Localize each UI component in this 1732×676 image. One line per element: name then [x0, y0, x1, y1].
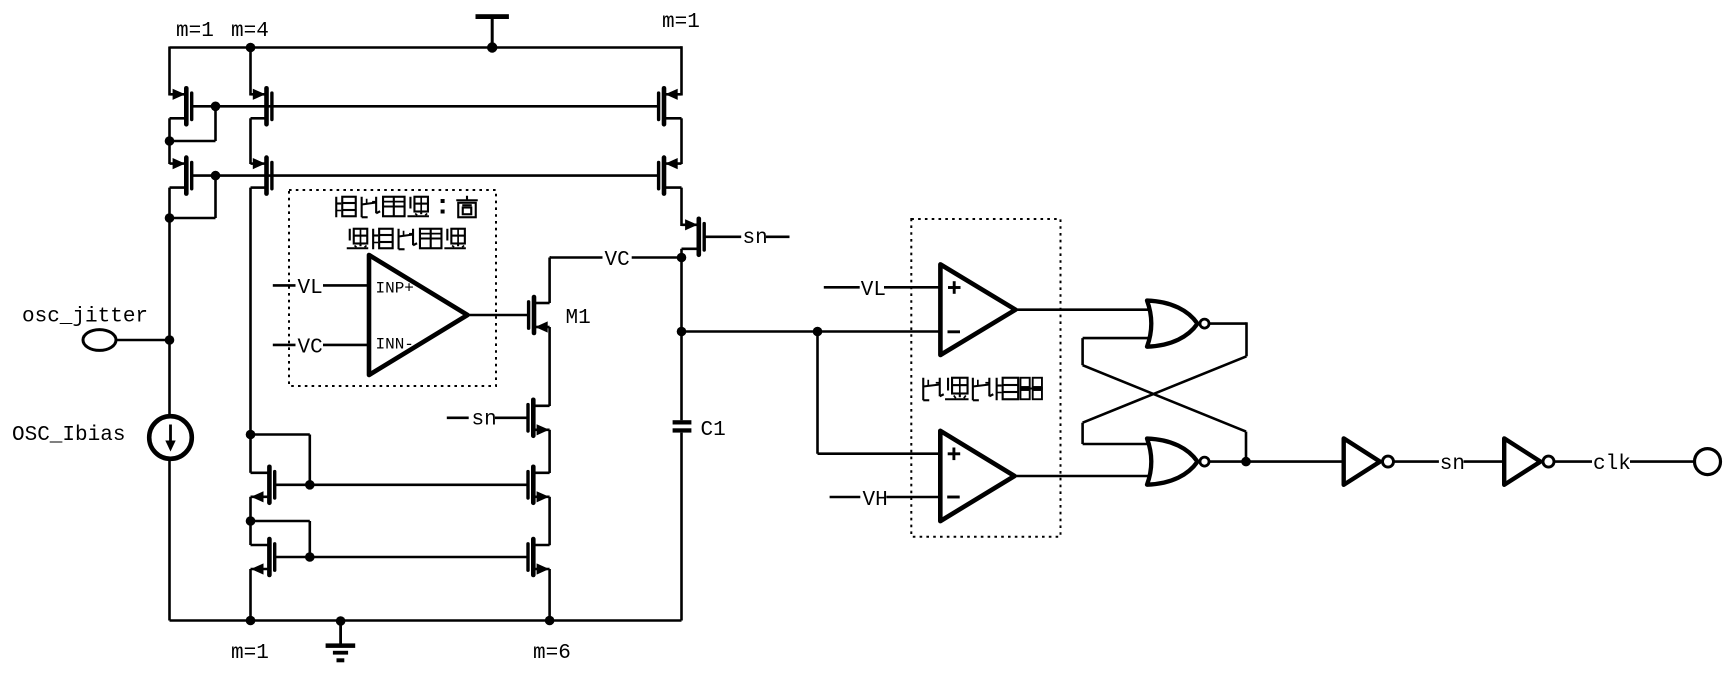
wire: C1 to ground rail [680, 433, 683, 621]
VDD supply symbol [476, 14, 509, 52]
wire: A1 output [1016, 308, 1152, 311]
wire: branch to lower comparator plus input [818, 452, 941, 455]
wire: VC column down to C1 [680, 332, 683, 421]
node: col1 mid [165, 136, 175, 146]
inverter I2 [1504, 438, 1554, 484]
label VC (node) [603, 249, 632, 269]
wire: osc_jitter lead [116, 339, 168, 342]
wire: top VDD rail [170, 46, 682, 49]
node: left mirror top [246, 430, 256, 440]
op-amp U1 (clamp) [369, 255, 468, 375]
svg-text:OSC_Ibias: OSC_Ibias [12, 424, 125, 447]
wire: VL lead [884, 286, 940, 289]
current source OSC_Ibias [149, 416, 192, 459]
terminal clk output [1695, 449, 1721, 475]
wire: VH stub [830, 496, 861, 499]
svg-text:VC: VC [605, 249, 630, 272]
wire: G2 feedback diagonal [1083, 365, 1246, 431]
svg-text:sn: sn [472, 408, 497, 431]
node: rail junction col2 [246, 43, 256, 53]
node: PM1a gate [211, 102, 221, 112]
svg-text:clk: clk [1593, 453, 1631, 476]
wire: node to comparator bus [682, 330, 818, 333]
wire: VC input stub [273, 344, 296, 347]
label: 快速比较器 [923, 378, 1043, 401]
wire: G2 output [1209, 460, 1246, 463]
svg-text:VL: VL [861, 279, 886, 302]
wire: VH lead [886, 496, 940, 499]
node: left mirror mid [246, 516, 256, 526]
wire: M1 drain up to VC line [548, 258, 551, 304]
comparator A1 (upper) [940, 264, 1015, 355]
wire: gate bus row4 [275, 556, 528, 559]
wire: middle column to ground rail [548, 569, 551, 621]
transistor NM1 (m=1 left mirror top) [251, 467, 275, 503]
wire: branch to upper comparator inv input [818, 330, 941, 333]
svg-text:M1: M1 [566, 307, 591, 330]
transistor NM row3 (m=6 upper) [528, 467, 550, 503]
svg-text:INP+: INP+ [376, 280, 414, 298]
wire: A2 output [1015, 475, 1152, 478]
node: osc_jitter junction [165, 335, 175, 345]
svg-text:m=1: m=1 [176, 20, 214, 43]
wire: feedback to NOR2 upper input [1083, 443, 1151, 446]
wire: col1 source from rail [168, 47, 171, 96]
label: 速钳位电路 [347, 229, 466, 250]
node: ground tap [336, 616, 346, 626]
svg-text:sn: sn [1440, 453, 1465, 476]
node: comparator tap [677, 327, 687, 337]
node: col1 lower [165, 213, 175, 223]
wire: NM1 source to node [249, 497, 252, 521]
wire: gate bus row3 [275, 483, 528, 486]
wire: sn gate stub right [766, 236, 790, 239]
NOR gate G2 (lower) [1147, 439, 1209, 485]
transistor PM3b (m=1 right bottom) [659, 158, 682, 194]
node: comparator branch [813, 327, 823, 337]
dashed box: auxiliary clamp circuit [289, 190, 496, 386]
dashed box: fast comparator [911, 219, 1060, 537]
node: VC junction [677, 253, 687, 263]
svg-text:sn: sn [743, 227, 768, 250]
transistor NM2 (m=1 left mirror bottom) [251, 539, 275, 575]
wire: sn switch drain to VC node [680, 249, 683, 259]
ground symbol [326, 621, 356, 662]
wire: ground rail [170, 619, 682, 622]
wire: col2 drain long drop [249, 188, 252, 435]
wire: NM2 source to ground rail [249, 569, 252, 621]
wire: VC column down to comparator tap [680, 258, 683, 332]
transistor sn switch [682, 219, 705, 255]
svg-text:VC: VC [298, 337, 323, 360]
wire: VL stub [824, 286, 860, 289]
node: middle column ground [545, 616, 555, 626]
wire: VC horizontal [550, 256, 682, 259]
svg-text:m=6: m=6 [533, 642, 571, 665]
label: 辅助电路：高 [336, 196, 478, 218]
wire: G2 feedback drop [1081, 338, 1084, 365]
wire: col2 between transistors [249, 118, 252, 164]
wire: col1 between transistors [168, 141, 171, 164]
wire: sn gate lead [495, 416, 528, 419]
wire: sn gate stub [447, 416, 469, 419]
wire: left column upper [168, 218, 171, 416]
wire: G1 output [1209, 322, 1247, 325]
wire: op-amp output to M1 gate [466, 314, 529, 317]
wire: mirror gate bus upper [216, 105, 659, 108]
node: PM1b gate [211, 171, 221, 181]
wire: PM1b gate stub [192, 174, 216, 177]
transistor PM2b (m=4 bottom) [251, 158, 272, 194]
wire: sn gate lead [704, 236, 741, 239]
NOR gate G1 (upper) [1147, 301, 1209, 347]
svg-text:osc_jitter: osc_jitter [22, 306, 148, 329]
wire: feedback to NOR1 lower input [1083, 337, 1151, 340]
node: gate bus lower [305, 552, 315, 562]
wire: middle column between mirrors [548, 497, 551, 545]
wire: middle column between sn and mirror [548, 430, 551, 473]
transistor sn discharge NMOS [528, 400, 550, 436]
wire: PM1b diode connection [214, 176, 217, 218]
wire: col3 between transistors [680, 118, 683, 164]
svg-text:m=4: m=4 [231, 20, 269, 43]
transistor PM1b (m=1 bottom) [170, 158, 192, 194]
node: left column ground [246, 616, 256, 626]
wire: PM1b drain down to node [168, 188, 171, 218]
wire: PM1a gate to diode node [192, 105, 216, 108]
capacitor C1 [673, 420, 692, 432]
wire: sn to I2 [1464, 460, 1505, 463]
svg-text:VL: VL [298, 277, 323, 300]
transistor PM1a (m=1 top-left) [170, 88, 192, 124]
wire: branch down [816, 332, 819, 454]
wire: col3 drain drop to sn switch [680, 188, 683, 226]
label - (A2) [947, 496, 960, 499]
node: gate bus upper [305, 480, 315, 490]
wire: left column lower [168, 459, 171, 621]
wire: clk to terminal [1630, 460, 1694, 463]
wire: G2 feedback rise [1245, 432, 1248, 462]
wire: G1 feedback diagonal [1083, 356, 1247, 422]
wire: PM1a diode connection [214, 106, 217, 141]
label + (A2) [948, 452, 961, 455]
svg-text:INN-: INN- [376, 336, 414, 354]
wire: mirror diode link lower [251, 520, 310, 523]
wire: I1 output [1394, 460, 1439, 463]
wire: col2 source from rail [249, 48, 252, 96]
wire: I2 output [1554, 460, 1592, 463]
wire: VC input lead [323, 344, 369, 347]
svg-text:C1: C1 [701, 419, 726, 442]
label + (A1) [948, 286, 961, 289]
wire: col3 drop from rail [680, 46, 683, 95]
transistor PM2a (m=4 top) [251, 88, 272, 124]
label - (A1) [948, 330, 961, 333]
wire: left mirror drain drop [249, 435, 252, 473]
transistor PM3a (m=1 right top) [659, 88, 682, 124]
wire: M1 source down [548, 327, 551, 406]
svg-text:m=1: m=1 [231, 642, 269, 665]
terminal osc_jitter [83, 330, 116, 351]
inverter I1 [1344, 438, 1394, 484]
wire: mirror diode link upper [251, 433, 310, 436]
svg-text:m=1: m=1 [662, 11, 700, 34]
node: latch output [1241, 457, 1251, 467]
wire: NM2 drain drop [249, 521, 252, 545]
comparator A2 (lower) [940, 431, 1014, 521]
transistor M1 [529, 297, 550, 333]
wire: PM1a drain down to node [168, 118, 171, 141]
svg-text:VH: VH [863, 489, 888, 512]
transistor NM row4 (m=6 lower) [528, 539, 550, 575]
wire: G1 feedback drop [1245, 322, 1248, 356]
wire: G1 feedback riser [1081, 423, 1084, 444]
wire: latch output to inverter [1246, 460, 1344, 463]
wire: VL input lead [323, 284, 369, 287]
wire: mirror gate bus lower [216, 174, 659, 177]
wire: VL input stub [273, 284, 296, 287]
